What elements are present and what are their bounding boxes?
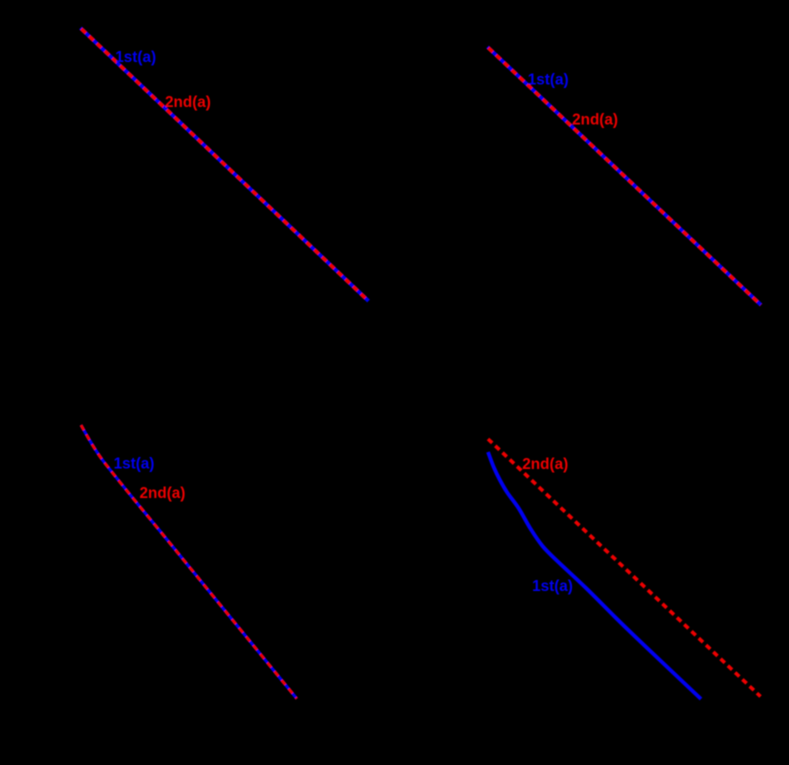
panel D blue solid curve <box>488 452 701 699</box>
svg-text:1st(a): 1st(a) <box>528 71 569 88</box>
panel D red dashed line <box>488 439 761 697</box>
panel C red dashed curve <box>81 425 297 699</box>
svg-text:2nd(a): 2nd(a) <box>140 485 186 502</box>
panel B red dashed line <box>488 47 762 305</box>
svg-text:1st(a): 1st(a) <box>115 49 156 66</box>
panel B blue solid line <box>488 47 762 305</box>
panel A red dashed line <box>81 28 369 301</box>
panel A blue solid line <box>81 28 369 301</box>
svg-text:2nd(a): 2nd(a) <box>165 94 211 111</box>
svg-text:2nd(a): 2nd(a) <box>572 112 618 129</box>
svg-text:1st(a): 1st(a) <box>114 456 155 473</box>
svg-text:2nd(a): 2nd(a) <box>522 456 568 473</box>
svg-text:1st(a): 1st(a) <box>532 578 573 595</box>
panel C blue solid curve <box>81 425 297 699</box>
